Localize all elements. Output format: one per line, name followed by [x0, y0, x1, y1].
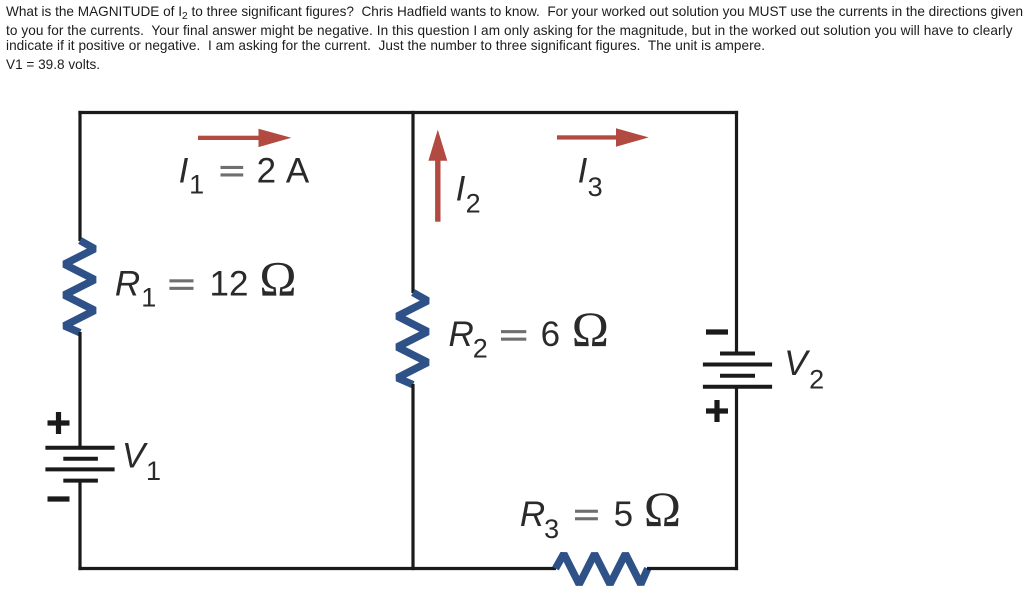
- battery V2 plate 1 (short, - terminal): [720, 352, 755, 356]
- battery V2 plus sign: [706, 400, 728, 422]
- svg-text:Ω: Ω: [572, 301, 609, 357]
- label V2: [784, 344, 824, 394]
- svg-text:V: V: [122, 437, 149, 476]
- wire: top side, left loop (node A to node B): [78, 111, 413, 114]
- battery V2 plate 3 (short): [720, 374, 755, 378]
- battery V1 plate 4 (short, - terminal): [63, 479, 98, 483]
- current arrow I1: [198, 129, 291, 147]
- wire: top side, right loop (node B to node C): [413, 111, 738, 114]
- label I2: [456, 170, 481, 219]
- problem statement line 3: [6, 39, 765, 53]
- svg-text:V: V: [784, 344, 811, 383]
- wire: left branch lower segment: [78, 481, 81, 570]
- svg-text:2: 2: [466, 188, 481, 218]
- svg-text:2: 2: [809, 364, 824, 394]
- svg-text:3: 3: [544, 514, 559, 544]
- label R1 = 12 ohm: [115, 250, 297, 312]
- battery V1 plus sign: [48, 412, 70, 434]
- battery V2 plate 4 (long, + terminal): [703, 385, 772, 389]
- wire: bottom side from node D to R3: [413, 567, 556, 570]
- label I3: [578, 152, 603, 203]
- wire: left branch between R1 and battery V1: [78, 332, 81, 448]
- label R2 = 6 ohm: [449, 301, 609, 363]
- svg-text:R: R: [449, 315, 474, 354]
- svg-text:1: 1: [146, 456, 161, 486]
- svg-text:1: 1: [189, 169, 204, 199]
- svg-text:R: R: [115, 264, 140, 303]
- battery V1 plate 1 (long, + terminal): [45, 446, 114, 450]
- wire: middle branch lower segment: [411, 384, 414, 570]
- svg-text:6: 6: [541, 315, 560, 354]
- current arrow I3: [557, 128, 649, 146]
- svg-text:I: I: [578, 152, 588, 191]
- svg-text:1: 1: [141, 283, 156, 313]
- resistor R1 (12 ohm): [64, 241, 94, 333]
- svg-text:2: 2: [257, 152, 276, 191]
- problem statement line 2: [6, 24, 1013, 38]
- svg-text:2: 2: [473, 333, 488, 363]
- battery V1 minus sign: [48, 496, 70, 501]
- wire: right branch upper segment: [735, 111, 738, 354]
- svg-text:3: 3: [588, 172, 603, 202]
- label R3 = 5 ohm: [520, 481, 681, 544]
- svg-text:I: I: [179, 152, 189, 191]
- resistor R2 (6 ohm): [397, 293, 427, 385]
- battery V2 plate 2 (long): [703, 363, 772, 367]
- problem statement line 1: [6, 5, 1023, 24]
- svg-text:5: 5: [614, 495, 633, 534]
- svg-text:A: A: [286, 152, 310, 191]
- wire: right branch lower segment: [735, 387, 738, 570]
- svg-text:R: R: [520, 495, 545, 534]
- label V1: [122, 437, 161, 487]
- svg-text:I: I: [456, 170, 466, 209]
- battery V2 minus sign: [706, 329, 728, 334]
- current arrow I2: [428, 130, 447, 222]
- wire: bottom side, left loop: [78, 567, 413, 570]
- resistor R3 (5 ohm): [556, 554, 648, 584]
- given value V1: [6, 58, 100, 72]
- wire: middle branch upper segment: [411, 111, 414, 293]
- battery V1 plate 3 (long): [45, 467, 114, 471]
- label I1 = 2 A: [179, 152, 310, 200]
- svg-text:Ω: Ω: [259, 250, 296, 306]
- svg-text:12: 12: [210, 264, 249, 303]
- wire: left branch upper segment: [78, 111, 81, 241]
- battery V1 plate 2 (short): [63, 457, 98, 461]
- wire: bottom side from R3 to right branch: [647, 567, 738, 570]
- svg-text:Ω: Ω: [644, 481, 681, 537]
